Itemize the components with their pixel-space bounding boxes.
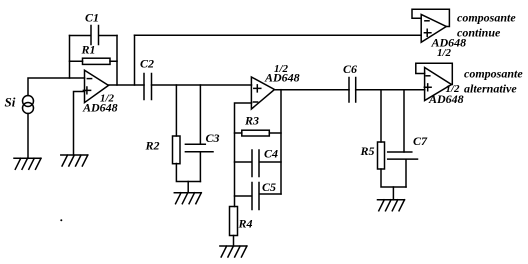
resistor R1 body	[83, 58, 111, 64]
wire top rail to U3	[135, 34, 422, 36]
wire R1 leads	[70, 60, 118, 62]
svg-text:C3: C3	[206, 131, 220, 145]
svg-text:AD648: AD648	[264, 71, 300, 85]
capacitor C6	[349, 78, 356, 103]
op-amp U4 triangle	[425, 68, 452, 101]
U1 non-inverting input marker	[83, 87, 90, 94]
svg-text:C6: C6	[343, 62, 357, 76]
U2 inverting input marker	[253, 101, 257, 103]
wire C2 to U2 + input	[152, 84, 252, 86]
svg-text:composante: composante	[464, 67, 523, 81]
ground (below R5/C7)	[378, 200, 405, 211]
wire source top to inverting input	[28, 78, 85, 96]
svg-text:C7: C7	[413, 134, 428, 148]
wire right vertical feedback to output	[116, 36, 118, 86]
U3 non-inverting input marker	[424, 29, 431, 36]
resistor R3 body	[242, 130, 269, 136]
svg-text:Si: Si	[5, 95, 16, 110]
wire C6 to U4 + input	[356, 89, 425, 91]
svg-text:R3: R3	[244, 114, 259, 128]
svg-text:C4: C4	[264, 147, 278, 161]
wire R5 bottom to junction	[381, 169, 406, 187]
wire drop to C7	[403, 90, 405, 152]
U3 inverting input marker	[425, 20, 429, 22]
capacitor C3	[185, 144, 213, 181]
op-amp U1 triangle	[85, 70, 109, 102]
U4 non-inverting input marker	[424, 84, 431, 91]
wire junction up to top rail	[134, 35, 136, 85]
speck	[60, 219, 62, 221]
wire R2 bottom to junction	[176, 164, 200, 182]
capacitor C5	[235, 183, 282, 210]
resistor R5 body	[378, 142, 385, 169]
wire U2 output to C6	[275, 89, 350, 91]
capacitor C2	[144, 74, 152, 100]
wire U4 feedback loop	[416, 63, 453, 84]
wire U2 - input loop	[235, 103, 252, 207]
wire U1 output	[109, 84, 145, 86]
op-amp U3 triangle	[421, 14, 446, 42]
svg-text:R5: R5	[360, 144, 375, 158]
wire drop to R2	[175, 85, 177, 136]
capacitor C7	[388, 152, 418, 187]
svg-text:AD648: AD648	[82, 101, 118, 115]
U2 non-inverting input marker	[254, 85, 261, 92]
ground (below R4)	[220, 246, 247, 257]
U1 inverting input marker	[87, 78, 91, 80]
wire drop to C3	[199, 85, 201, 144]
wire left vertical C1/R1 branch	[69, 36, 71, 79]
resistor R2 body	[173, 136, 181, 164]
wire drop to R5	[380, 90, 382, 142]
svg-text:R2: R2	[145, 139, 160, 153]
op-amp U2 triangle	[251, 77, 274, 109]
wire source bottom to ground	[27, 114, 29, 159]
wire U3 feedback loop	[412, 9, 449, 26]
ground (below R2/C3)	[174, 193, 201, 204]
svg-text:AD648: AD648	[428, 92, 464, 106]
ground (below source)	[14, 158, 41, 169]
svg-text:C2: C2	[140, 57, 154, 71]
U4 inverting input marker	[426, 75, 430, 77]
svg-text:alternative: alternative	[464, 82, 517, 96]
ground (below U1 +)	[61, 155, 88, 166]
wire U1 + input to ground	[74, 92, 85, 156]
wire stub to ground	[392, 187, 394, 200]
svg-text:C1: C1	[85, 11, 99, 25]
svg-text:C5: C5	[262, 180, 276, 194]
svg-text:composante: composante	[457, 11, 516, 25]
svg-text:1/2: 1/2	[437, 47, 452, 59]
wire stub to ground	[187, 182, 189, 193]
source Si	[23, 96, 34, 107]
resistor R4 body	[230, 207, 238, 236]
wire R4 bottom to ground	[233, 236, 235, 247]
wire feedback vertical right	[280, 90, 282, 194]
capacitor C1	[70, 26, 118, 45]
wire R3 leads	[235, 132, 282, 134]
svg-text:R4: R4	[238, 217, 253, 231]
capacitor C4	[235, 150, 282, 177]
svg-text:R1: R1	[81, 43, 96, 57]
